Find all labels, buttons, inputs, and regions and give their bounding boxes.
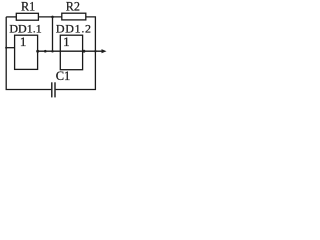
svg-text:DD1.2: DD1.2 [56,21,92,35]
svg-text:1: 1 [20,34,27,49]
svg-text:R2: R2 [66,0,80,13]
svg-text:1: 1 [63,34,70,49]
svg-text:R1: R1 [21,0,35,13]
svg-text:C1: C1 [56,69,71,83]
